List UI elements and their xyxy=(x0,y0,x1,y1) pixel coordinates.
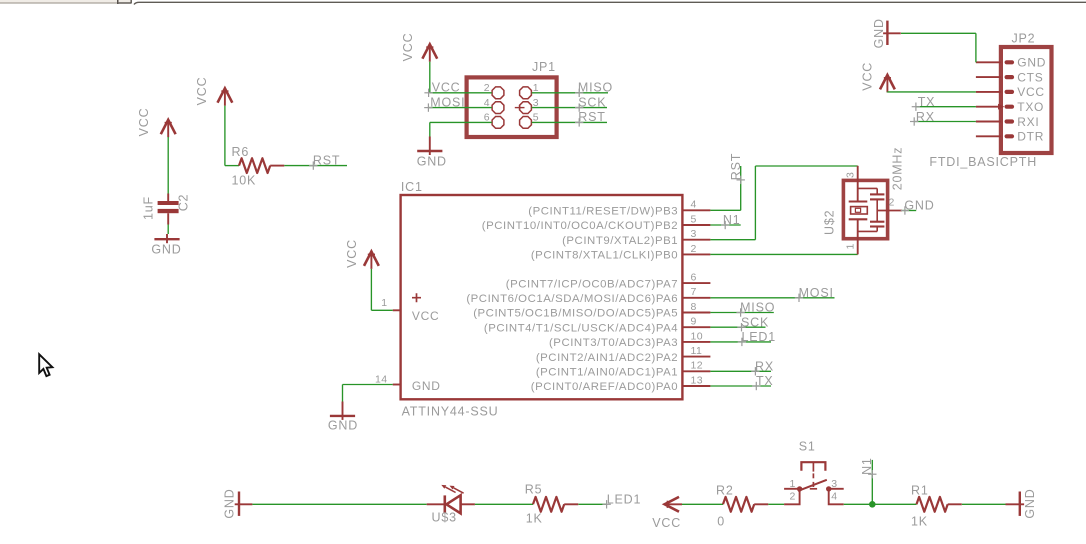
svg-text:(PCINT7/ICP/OC0B/ADC7)PA7: (PCINT7/ICP/OC0B/ADC7)PA7 xyxy=(506,278,678,290)
svg-text:10: 10 xyxy=(691,330,703,342)
svg-text:U$2: U$2 xyxy=(823,210,837,235)
svg-text:S1: S1 xyxy=(799,440,816,454)
svg-text:(PCINT2/AIN1/ADC2)PA2: (PCINT2/AIN1/ADC2)PA2 xyxy=(536,352,678,364)
svg-text:RXI: RXI xyxy=(1017,115,1039,129)
svg-text:1: 1 xyxy=(533,82,539,94)
svg-text:1K: 1K xyxy=(526,512,543,526)
svg-text:14: 14 xyxy=(375,373,387,385)
svg-text:(PCINT8/XTAL1/CLKI)PB0: (PCINT8/XTAL1/CLKI)PB0 xyxy=(531,250,678,262)
svg-text:R2: R2 xyxy=(716,483,734,497)
svg-text:1uF: 1uF xyxy=(142,196,156,220)
svg-text:MOSI: MOSI xyxy=(430,95,465,109)
svg-text:GND: GND xyxy=(1017,56,1046,70)
svg-text:VCC: VCC xyxy=(401,33,415,62)
svg-text:(PCINT11/RESET/DW)PB3: (PCINT11/RESET/DW)PB3 xyxy=(528,206,678,218)
svg-text:GND: GND xyxy=(151,243,181,257)
svg-text:(PCINT1/AIN0/ADC1)PA1: (PCINT1/AIN0/ADC1)PA1 xyxy=(536,367,678,379)
svg-text:MISO: MISO xyxy=(740,301,775,315)
svg-text:4: 4 xyxy=(484,97,490,109)
svg-text:4: 4 xyxy=(691,199,697,211)
svg-text:ATTINY44-SSU: ATTINY44-SSU xyxy=(402,404,499,418)
svg-text:CTS: CTS xyxy=(1017,70,1043,84)
svg-text:R1: R1 xyxy=(911,483,929,497)
svg-text:DTR: DTR xyxy=(1017,130,1044,144)
svg-text:3: 3 xyxy=(831,478,837,490)
svg-text:8: 8 xyxy=(691,301,697,313)
svg-text:3: 3 xyxy=(691,228,697,240)
svg-text:13: 13 xyxy=(691,374,703,386)
svg-text:2: 2 xyxy=(484,82,490,94)
svg-text:5: 5 xyxy=(533,112,539,124)
svg-text:0: 0 xyxy=(717,514,725,528)
svg-text:1K: 1K xyxy=(911,514,928,528)
svg-text:VCC: VCC xyxy=(412,309,439,323)
svg-text:IC1: IC1 xyxy=(401,180,423,194)
svg-text:C2: C2 xyxy=(176,194,190,212)
svg-text:6: 6 xyxy=(484,112,490,124)
svg-text:JP1: JP1 xyxy=(532,60,556,74)
svg-text:4: 4 xyxy=(831,491,837,503)
svg-text:JP2: JP2 xyxy=(1012,32,1036,46)
svg-text:GND: GND xyxy=(222,488,236,518)
svg-text:1: 1 xyxy=(844,243,856,249)
svg-text:VCC: VCC xyxy=(195,77,209,106)
svg-text:7: 7 xyxy=(691,286,697,298)
svg-text:LED1: LED1 xyxy=(607,492,641,506)
svg-text:GND: GND xyxy=(412,379,441,393)
svg-text:GND: GND xyxy=(417,154,447,168)
svg-text:1: 1 xyxy=(381,297,387,309)
svg-text:R5: R5 xyxy=(525,482,543,496)
svg-text:R6: R6 xyxy=(232,145,250,159)
svg-text:TX: TX xyxy=(918,95,936,109)
svg-text:VCC: VCC xyxy=(345,239,359,268)
svg-text:(PCINT3/T0/ADC3)PA3: (PCINT3/T0/ADC3)PA3 xyxy=(549,337,678,349)
svg-text:(PCINT10/INT0/OC0A/CKOUT)PB2: (PCINT10/INT0/OC0A/CKOUT)PB2 xyxy=(482,220,678,232)
svg-text:TXO: TXO xyxy=(1017,100,1044,114)
svg-text:6: 6 xyxy=(691,272,697,284)
svg-text:LED1: LED1 xyxy=(742,330,776,344)
svg-text:11: 11 xyxy=(691,345,703,357)
svg-text:20MHz: 20MHz xyxy=(890,147,904,191)
svg-text:RX: RX xyxy=(916,110,935,124)
svg-text:VCC: VCC xyxy=(860,62,874,91)
svg-text:U$3: U$3 xyxy=(432,511,457,525)
svg-text:VCC: VCC xyxy=(1017,85,1044,99)
svg-text:(PCINT4/T1/SCL/USCK/ADC4)PA4: (PCINT4/T1/SCL/USCK/ADC4)PA4 xyxy=(484,322,678,334)
svg-text:(PCINT5/OC1B/MISO/DO/ADC5)PA5: (PCINT5/OC1B/MISO/DO/ADC5)PA5 xyxy=(473,308,678,320)
svg-text:2: 2 xyxy=(691,243,697,255)
svg-text:VCC: VCC xyxy=(432,81,461,95)
svg-text:9: 9 xyxy=(691,316,697,328)
svg-text:12: 12 xyxy=(691,360,703,372)
svg-text:2: 2 xyxy=(790,491,796,503)
svg-text:3: 3 xyxy=(533,97,539,109)
svg-text:GND: GND xyxy=(1023,488,1037,518)
svg-text:(PCINT6/OC1A/SDA/MOSI/ADC6)PA6: (PCINT6/OC1A/SDA/MOSI/ADC6)PA6 xyxy=(466,293,678,305)
svg-text:2: 2 xyxy=(889,197,895,209)
svg-text:FTDI_BASICPTH: FTDI_BASICPTH xyxy=(929,155,1037,169)
svg-text:MOSI: MOSI xyxy=(799,286,834,300)
svg-text:3: 3 xyxy=(844,172,856,178)
svg-text:5: 5 xyxy=(691,213,697,225)
svg-text:GND: GND xyxy=(872,18,886,48)
svg-text:(PCINT0/AREF/ADC0)PA0: (PCINT0/AREF/ADC0)PA0 xyxy=(531,381,678,393)
svg-text:1: 1 xyxy=(790,478,796,490)
svg-text:VCC: VCC xyxy=(137,108,151,137)
svg-text:GND: GND xyxy=(328,418,358,432)
svg-text:10K: 10K xyxy=(232,173,257,187)
svg-text:(PCINT9/XTAL2)PB1: (PCINT9/XTAL2)PB1 xyxy=(562,235,678,247)
svg-text:VCC: VCC xyxy=(652,516,681,530)
